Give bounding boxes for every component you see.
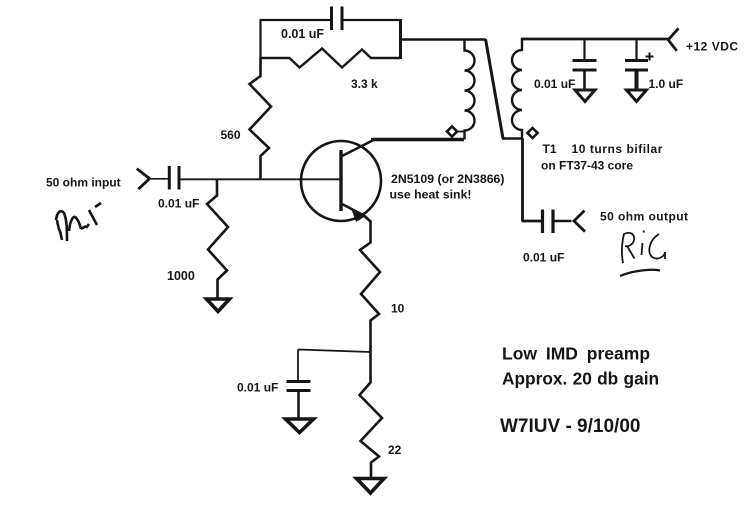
ground (C6) [286,419,314,433]
capacitor C1 0.01 uF (input coupling) [169,166,179,190]
capacitor C3 lower stem [583,71,586,91]
transistor Q1 emitter lead [341,204,365,217]
capacitor C5 0.01 uF (output coupling) [543,210,554,234]
svg-text:0.01 uF: 0.01 uF [534,77,575,91]
transformer T1 primary winding [465,40,475,140]
polarity plus sign [646,53,654,61]
phase dot secondary [527,128,537,138]
svg-text:0.01 uF: 0.01 uF [158,197,199,211]
wire feedback loop top edge left [260,19,332,21]
ground (R1) [207,299,230,312]
svg-text:50 ohm input: 50 ohm input [46,176,121,190]
input connector J1 [137,169,150,190]
capacitor C4 lower stem [635,71,639,91]
resistor R5 22 [360,352,383,478]
resistor R1 1000 [207,180,228,299]
transistor Q1 base bar [339,150,342,211]
power connector +12 VDC [668,28,678,51]
wire diagonal link [486,39,504,139]
wire input to C1 [149,178,169,180]
capacitor C6 0.01 uF (emitter bypass) plates [287,382,311,391]
transformer T1 secondary winding [512,40,522,139]
svg-text:10: 10 [391,302,405,316]
capacitor C4 plates [625,61,648,71]
handwritten RiG [622,231,665,264]
wire top of T1 primary [400,38,486,40]
svg-text:T1: T1 [543,142,557,156]
capacitor C3 0.01 uF (rail bypass) stem [583,39,585,60]
output connector J2 [574,211,585,232]
svg-text:on FT37-43 core: on FT37-43 core [541,159,633,173]
svg-text:0.01 uF: 0.01 uF [281,27,324,41]
wire link to secondary bottom [502,137,523,140]
svg-text:50 ohm output: 50 ohm output [600,210,689,224]
resistor R3 3.3 k (feedback, loop bottom edge) [261,49,401,68]
svg-text:1.0 uF: 1.0 uF [649,77,684,91]
svg-text:22: 22 [388,443,402,457]
svg-text:W7IUV - 9/10/00: W7IUV - 9/10/00 [500,416,640,437]
capacitor C3 plates [573,61,597,71]
transistor Q1 circle [301,141,381,221]
ground (C4) [627,90,647,102]
wire secondary to output [522,139,542,222]
ground (R5) [357,479,385,494]
transistor Q1 collector lead [341,140,375,157]
svg-text:2N5109 (or 2N3866): 2N5109 (or 2N3866) [391,172,504,186]
svg-text:10 turns bifilar: 10 turns bifilar [572,142,664,156]
capacitor C2 0.01 uF (feedback) [332,7,343,31]
wire stub to phase dot [456,131,464,133]
transistor Q1 emitter arrow [352,210,366,223]
resistor R2 560 [250,58,272,180]
svg-text:0.01 uF: 0.01 uF [523,251,564,265]
wire feedback loop left edge [259,20,261,59]
svg-text:3.3 k: 3.3 k [351,77,378,91]
wire feedback loop right edge [399,19,402,59]
wire bypass branch [298,350,371,382]
wire +12V rail [521,38,669,41]
resistor R4 10 [360,221,380,352]
capacitor C4 1.0 uF stem [635,39,637,60]
phase dot primary [447,126,457,136]
svg-text:+12 VDC: +12 VDC [686,40,739,54]
svg-text:Low IMD preamp: Low IMD preamp [502,344,650,364]
svg-text:1000: 1000 [167,269,195,283]
wire C5 to output connector [554,220,572,223]
ground (C3) [575,90,595,102]
capacitor C6 stem [297,391,300,419]
wire feedback loop top edge right [343,19,402,21]
handwritten ANT [56,203,101,241]
svg-text:560: 560 [221,128,241,142]
wire base [180,178,340,180]
wire collector to T1 [371,138,464,142]
svg-text:use heat sink!: use heat sink! [390,188,472,202]
svg-text:0.01 uF: 0.01 uF [237,381,278,395]
wire emitter elbow [364,215,371,222]
svg-text:Approx. 20 db gain: Approx. 20 db gain [502,369,659,389]
handwritten underline [620,270,660,276]
